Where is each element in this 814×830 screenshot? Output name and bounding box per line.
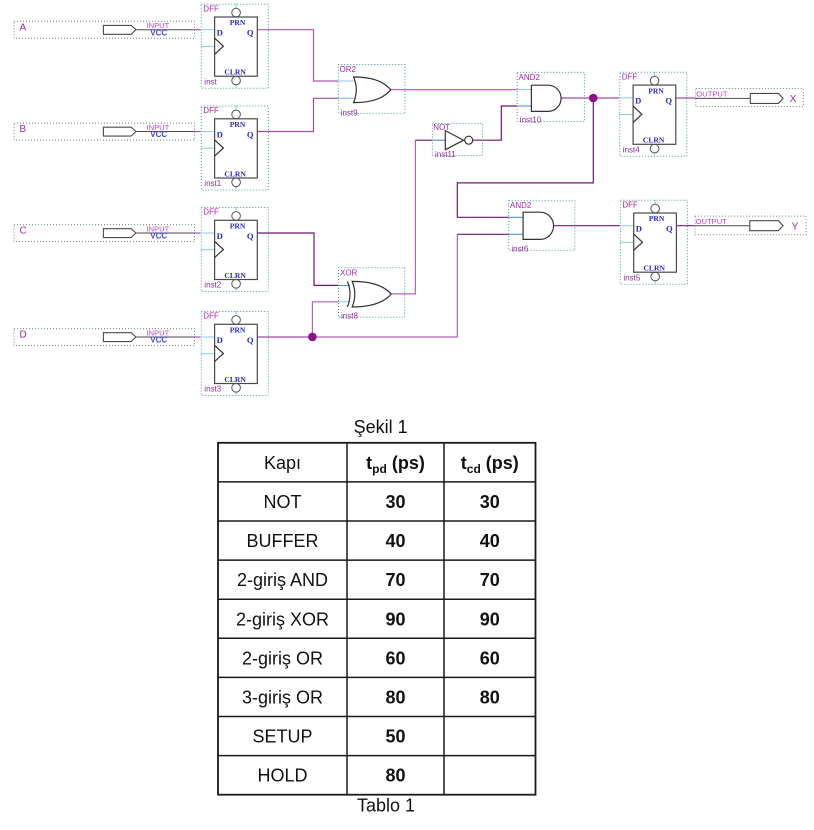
svg-text:DFF: DFF [203, 208, 219, 217]
svg-text:40: 40 [385, 531, 405, 551]
svg-text:inst11: inst11 [435, 150, 456, 159]
D flip-flop inst [201, 4, 268, 89]
wire input A to DFF inst [194, 29, 201, 31]
wire net D continuation to AND2 inst6 input 2 [312, 234, 457, 337]
svg-text:2-giriş AND: 2-giriş AND [237, 570, 328, 590]
svg-text:DFF: DFF [203, 312, 219, 321]
svg-text:30: 30 [385, 492, 405, 512]
OR gate inst9 [338, 65, 405, 118]
svg-text:70: 70 [480, 570, 500, 590]
svg-text:inst1: inst1 [204, 179, 221, 188]
D flip-flop inst4 [619, 72, 687, 157]
wire input B to DFF inst1 [194, 131, 201, 133]
wire AND2 inst6 output to DFF inst5 D [554, 225, 620, 227]
AND gate inst10 [517, 72, 585, 124]
svg-text:A: A [20, 22, 27, 33]
svg-text:inst10: inst10 [520, 116, 542, 125]
AND gate inst6 [508, 201, 575, 254]
svg-text:HOLD: HOLD [257, 766, 307, 786]
wire DFF inst5 Q to output pin Y [676, 225, 694, 227]
table frame [218, 443, 536, 795]
svg-text:inst: inst [204, 77, 217, 86]
input pin D [14, 328, 195, 345]
table row NOT [264, 492, 500, 512]
svg-text:Y: Y [792, 221, 799, 232]
output pin X [695, 89, 803, 107]
wire net C: DFF inst2 Q to XOR input 1 [257, 233, 338, 285]
svg-text:B: B [20, 124, 27, 135]
wire input D to DFF inst3 [194, 336, 201, 338]
svg-text:OUTPUT: OUTPUT [696, 217, 728, 226]
svg-text:XOR: XOR [340, 268, 358, 277]
wire segment into AND2 inst6 input 2 [457, 233, 508, 235]
svg-text:D: D [20, 330, 27, 341]
svg-text:AND2: AND2 [510, 201, 532, 210]
svg-text:BUFFER: BUFFER [247, 531, 319, 551]
svg-text:OUTPUT: OUTPUT [696, 90, 728, 99]
svg-text:tpd (ps): tpd (ps) [366, 453, 425, 476]
svg-text:80: 80 [385, 688, 405, 708]
table row HOLD [257, 766, 405, 786]
table row 3-giris OR [242, 688, 500, 708]
svg-text:inst5: inst5 [623, 273, 640, 282]
junction node on net D [308, 333, 317, 342]
svg-text:X: X [790, 94, 797, 105]
svg-text:inst6: inst6 [511, 244, 528, 253]
wire segment into NOT input [415, 139, 432, 141]
wire net B: DFF inst1 Q to OR2 input 2 [257, 98, 338, 131]
wire net A: DFF inst Q to OR2 input 1 [257, 30, 338, 81]
wire OR2 output to AND2 inst10 input 1 [391, 89, 517, 91]
table row SETUP [252, 727, 405, 747]
wire XOR output to NOT input [391, 140, 415, 294]
D flip-flop inst1 [201, 106, 268, 191]
svg-text:NOT: NOT [264, 492, 302, 512]
input pin C [14, 224, 195, 241]
svg-text:2-giriş XOR: 2-giriş XOR [236, 609, 329, 629]
svg-text:90: 90 [385, 609, 405, 629]
wire net D: DFF inst3 Q to junction [257, 336, 312, 338]
svg-text:AND2: AND2 [519, 73, 541, 82]
svg-text:Tablo 1: Tablo 1 [357, 796, 415, 816]
svg-text:Şekil 1: Şekil 1 [354, 417, 408, 437]
svg-text:40: 40 [480, 531, 500, 551]
wire DFF inst4 Q to output pin X [676, 97, 696, 99]
svg-text:DFF: DFF [622, 200, 638, 209]
svg-text:inst9: inst9 [341, 109, 358, 118]
svg-text:80: 80 [385, 766, 405, 786]
table row 2-giris AND [237, 570, 500, 590]
svg-text:DFF: DFF [622, 73, 638, 82]
svg-text:3-giriş OR: 3-giriş OR [242, 688, 323, 708]
wire junction branch to AND2 inst6 input 1 [457, 98, 593, 217]
svg-text:60: 60 [480, 648, 500, 668]
svg-text:inst2: inst2 [204, 281, 221, 290]
svg-text:70: 70 [385, 570, 405, 590]
svg-text:C: C [20, 226, 27, 237]
svg-text:60: 60 [385, 648, 405, 668]
svg-text:inst8: inst8 [341, 312, 358, 321]
svg-text:OR2: OR2 [340, 65, 357, 74]
D flip-flop inst2 [201, 207, 268, 292]
wire NOT output to AND2 inst10 input 2 [473, 106, 517, 140]
input pin A [14, 21, 195, 38]
svg-text:2-giriş OR: 2-giriş OR [242, 648, 323, 668]
table header row [264, 453, 519, 476]
NOT gate inst11 [432, 123, 482, 159]
svg-text:DFF: DFF [203, 4, 219, 13]
svg-text:50: 50 [385, 727, 405, 747]
junction node at AND2 inst10 output [589, 94, 598, 103]
svg-text:90: 90 [480, 609, 500, 629]
table row 2-giris OR [242, 648, 500, 668]
output pin Y [695, 216, 807, 235]
wire AND2 inst10 output to DFF inst4 D [562, 97, 620, 99]
svg-text:inst3: inst3 [204, 385, 221, 394]
wire input C to DFF inst2 [194, 232, 201, 234]
D flip-flop inst3 [201, 311, 268, 396]
svg-text:80: 80 [480, 688, 500, 708]
input pin B [14, 123, 195, 140]
svg-text:Kapı: Kapı [264, 453, 301, 473]
wire junction branch to XOR input 2 [312, 302, 338, 337]
D flip-flop inst5 [620, 200, 688, 285]
svg-text:tcd (ps): tcd (ps) [461, 453, 519, 476]
svg-text:DFF: DFF [203, 106, 219, 115]
table row BUFFER [247, 531, 500, 551]
svg-text:inst4: inst4 [623, 146, 640, 155]
svg-text:NOT: NOT [433, 123, 450, 132]
svg-text:SETUP: SETUP [252, 727, 312, 747]
svg-text:30: 30 [480, 492, 500, 512]
XOR gate inst8 [338, 268, 405, 321]
table row 2-giris XOR [236, 609, 500, 629]
